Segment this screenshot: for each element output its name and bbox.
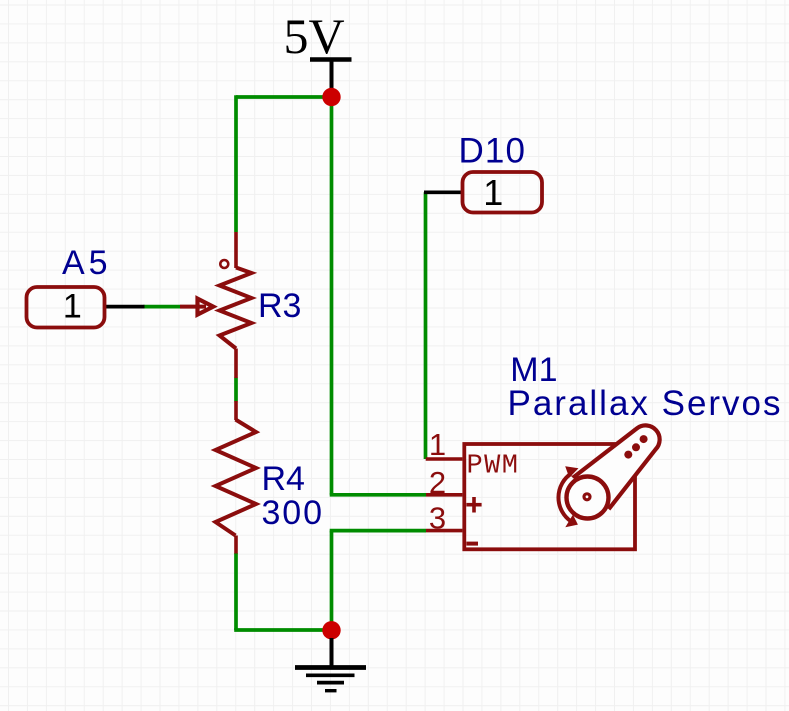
wire gnd column down xyxy=(330,531,334,630)
servo icon arm xyxy=(575,425,660,507)
potentiometer wiper arrow xyxy=(180,299,213,315)
wire R4 bottom down xyxy=(234,553,238,630)
svg-text:2: 2 xyxy=(429,465,446,500)
servo icon hub dot xyxy=(584,494,590,500)
wire A5 green segment xyxy=(144,305,181,309)
junction dot GND xyxy=(322,621,340,639)
pin name - xyxy=(466,542,478,546)
servo icon arrowhead bottom xyxy=(565,515,578,528)
servo icon arm dots xyxy=(624,451,632,459)
svg-text:5V: 5V xyxy=(283,8,344,64)
svg-text:1: 1 xyxy=(483,172,503,213)
junction dot 5V xyxy=(322,88,340,106)
wire D10 black pin stub xyxy=(424,190,463,194)
svg-text:R3: R3 xyxy=(258,287,301,325)
resistor R4 xyxy=(216,401,257,554)
pin name + xyxy=(466,497,481,513)
svg-text:R4: R4 xyxy=(262,460,305,498)
wire D10 column down to servo pin 1 xyxy=(424,192,428,459)
svg-text:PWM: PWM xyxy=(467,452,519,482)
svg-text:1: 1 xyxy=(63,287,82,325)
wire A5 black pin stub xyxy=(104,305,145,309)
pin 1 xyxy=(426,457,463,461)
wire left column down to R3 xyxy=(234,95,238,232)
svg-text:3: 3 xyxy=(429,501,446,536)
connector A5 xyxy=(27,287,105,328)
wire 5V rail down xyxy=(330,97,334,495)
pin 2 xyxy=(426,493,462,497)
wire bottom horizontal to gnd dot xyxy=(234,628,331,632)
ground xyxy=(295,638,366,691)
svg-text:Parallax Servos: Parallax Servos xyxy=(508,384,781,423)
connector D10 xyxy=(463,172,543,213)
pin 3 xyxy=(426,529,462,533)
servo icon arrowhead top xyxy=(565,466,578,478)
svg-text:D10: D10 xyxy=(459,132,526,171)
potentiometer R3 xyxy=(220,232,252,378)
wire servo pin 3 to gnd column xyxy=(330,529,426,533)
servo icon wheel xyxy=(567,477,609,519)
power symbol 5V xyxy=(283,8,351,93)
servo M1 box xyxy=(464,444,635,549)
wire 5V rail to servo pin 2 xyxy=(330,493,426,497)
servo icon rotation arc xyxy=(558,474,570,522)
svg-text:300: 300 xyxy=(262,494,323,532)
wire 5V net horizontal to left column xyxy=(236,95,332,99)
wire R3 to R4 xyxy=(234,378,238,402)
svg-text:1: 1 xyxy=(429,427,446,462)
svg-text:A5: A5 xyxy=(62,244,108,282)
